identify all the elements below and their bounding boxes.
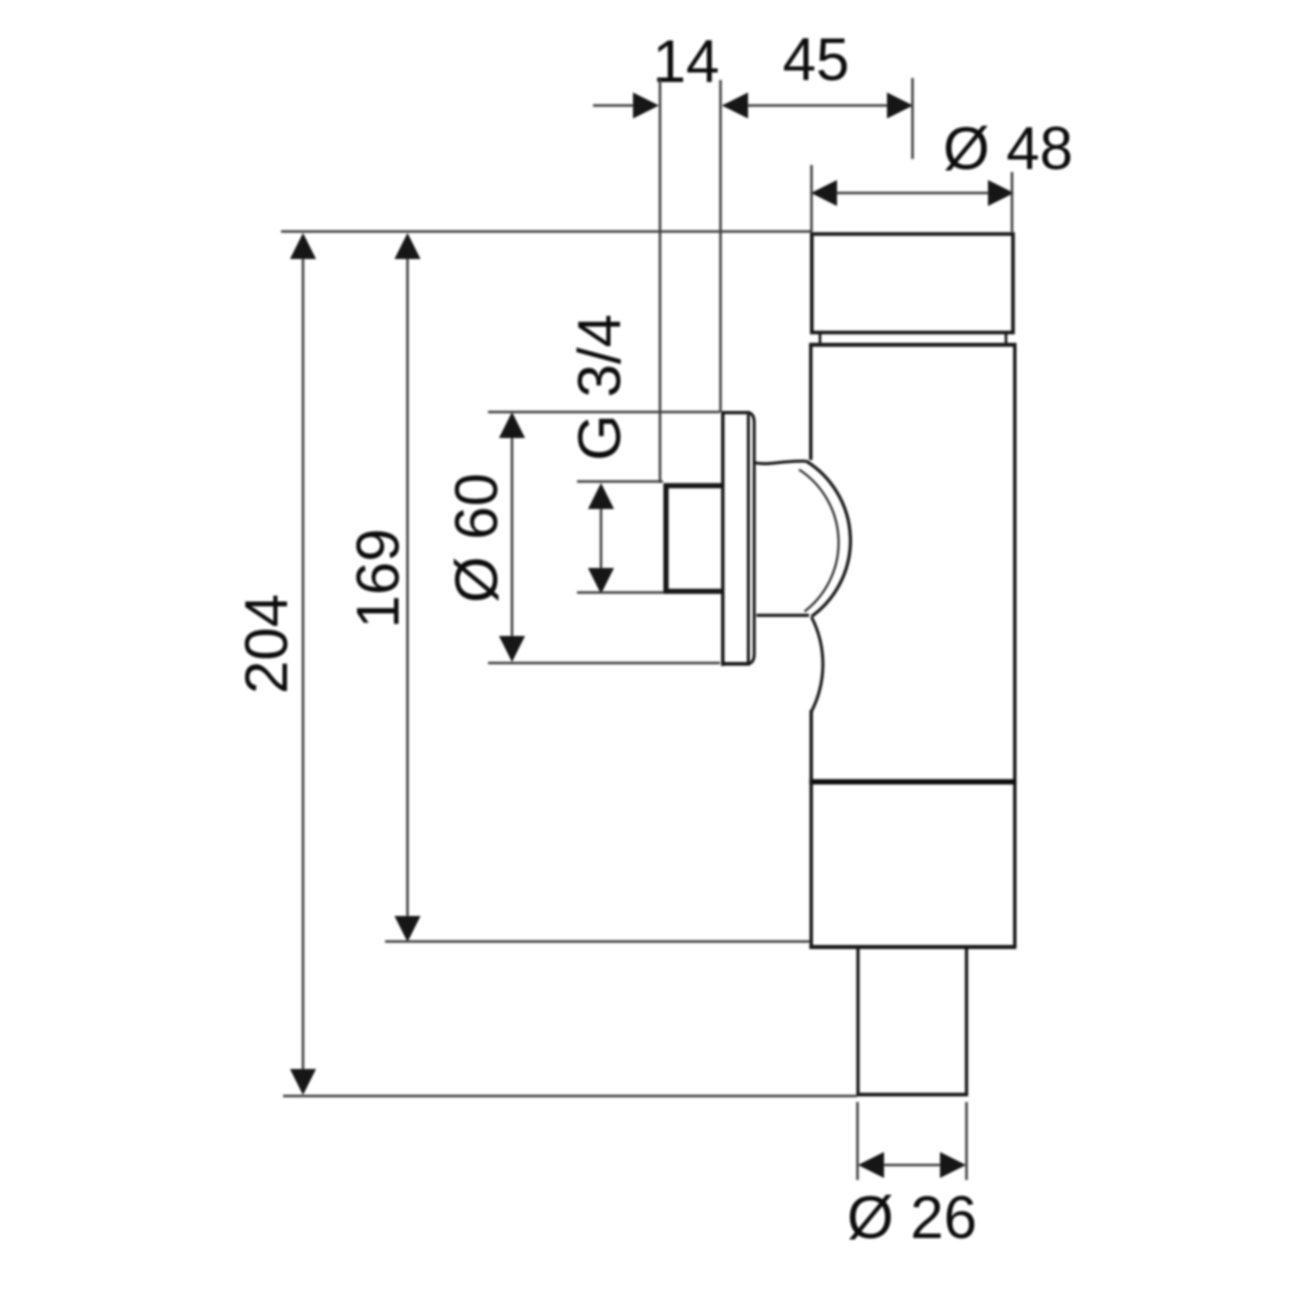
dim 204: top arrow pointing up [290, 233, 316, 259]
body right edge [1013, 343, 1016, 947]
inlet dome bottom edge [757, 614, 810, 617]
dim G3/4: bottom extension line [577, 591, 665, 594]
dim Ø26: left arrow pointing left [858, 1152, 884, 1178]
dim Ø60: bottom arrow pointing down [499, 636, 525, 662]
dim 169: top arrow pointing up [395, 233, 421, 259]
outlet pipe left edge [856, 947, 859, 1094]
body top edge [809, 343, 1016, 347]
inlet dome outer arc [806, 461, 850, 617]
dim 204: bottom extension line [283, 1095, 857, 1098]
dim G3/4: dimension line [600, 486, 603, 591]
dim 204: dimension line [302, 236, 305, 1092]
svg-text:45: 45 [783, 26, 850, 93]
dim G3/4: bottom arrow pointing down [588, 568, 614, 594]
body mid thick band [809, 779, 1016, 784]
dim Ø60: dimension line [511, 415, 514, 660]
dim 204: bottom arrow pointing down [290, 1069, 316, 1095]
outlet pipe bottom edge [856, 1093, 968, 1097]
wall flange top edge [721, 411, 750, 414]
inlet nipple (G 3/4 thread) [666, 486, 722, 592]
svg-text:169: 169 [345, 528, 412, 628]
dim 169: bottom arrow pointing down [395, 916, 421, 942]
inlet dome inner contour arc [799, 470, 839, 612]
dim Ø60: top extension line [488, 411, 720, 414]
dim Ø48: left arrow pointing left [811, 180, 837, 206]
dim 14: left tail line [593, 104, 634, 107]
svg-text:14: 14 [653, 28, 720, 95]
dim Ø48: left extension line [810, 165, 813, 232]
wall flange bottom edge [721, 662, 750, 666]
dim Ø26: left extension line [856, 1102, 859, 1180]
dim Ø60: bottom extension line [488, 662, 720, 665]
svg-text:Ø 60: Ø 60 [443, 473, 510, 603]
svg-text:204: 204 [233, 594, 300, 694]
dim 14: left arrow pointing right [633, 93, 659, 119]
dim G3/4: top extension line [577, 480, 663, 483]
dim Ø48: right arrow pointing right [988, 180, 1014, 206]
dim 45: right extension stub [911, 78, 914, 159]
dim Ø26: right extension line [965, 1102, 968, 1180]
svg-text:Ø 48: Ø 48 [943, 115, 1073, 182]
body left edge below inlet dome [810, 710, 813, 947]
body bottom edge [809, 945, 1016, 949]
top shared extension line for 204/169 [281, 230, 811, 233]
dim Ø60: top arrow pointing up [499, 412, 525, 438]
cap seam right stub [1005, 333, 1008, 344]
cap seam left stub [819, 333, 822, 344]
body left edge above inlet dome [809, 343, 812, 460]
svg-text:G 3/4: G 3/4 [566, 314, 633, 461]
dim Ø48: right extension line [1011, 172, 1014, 232]
dim 45: dimension line [723, 104, 912, 107]
dim Ø48: dimension line [812, 192, 1013, 195]
dim 45: right arrow pointing right [887, 93, 913, 119]
dim 169: dimension line [406, 236, 409, 939]
wall flange left edge [721, 411, 724, 666]
dim 14: right extension line [719, 80, 722, 412]
svg-text:Ø 26: Ø 26 [847, 1184, 977, 1251]
dim 14: left extension line [659, 80, 662, 483]
wall flange inner right edge [747, 415, 750, 663]
dim G3/4: top arrow pointing up [588, 483, 614, 509]
wall flange outer right bevel [748, 413, 754, 664]
dim Ø26: dimension line [860, 1164, 964, 1167]
dim Ø26: right arrow pointing right [940, 1152, 966, 1178]
outlet pipe right edge [965, 947, 968, 1094]
dim 169: bottom extension line [385, 940, 810, 943]
dim 45: left arrow pointing left [722, 93, 748, 119]
inlet dome top edge [756, 461, 807, 463]
top cap outline [812, 234, 1013, 333]
body left edge S-curve below dome [811, 617, 823, 712]
